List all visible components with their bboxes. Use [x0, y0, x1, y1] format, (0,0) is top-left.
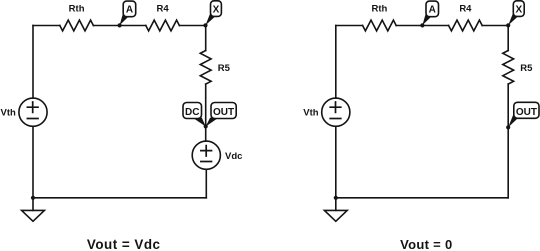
node X junction dot (left) — [203, 23, 207, 27]
node A junction dot (left) — [118, 23, 122, 27]
svg-text:A: A — [429, 5, 436, 16]
wire: R5 down to bottom corner (through OUT node) — [507, 84, 509, 198]
svg-text:X: X — [515, 4, 522, 15]
OUT node junction dot (right) — [506, 125, 510, 129]
wire: R4 to node X (right) — [482, 25, 508, 27]
node X flag (right) — [508, 1, 524, 25]
node X junction dot (right) — [506, 23, 510, 27]
resistor R4 (right) — [449, 20, 483, 31]
svg-text:OUT: OUT — [213, 107, 234, 118]
resistor R5 (right) — [503, 51, 514, 85]
svg-text:Vth: Vth — [1, 107, 17, 118]
svg-text:R5: R5 — [520, 63, 533, 74]
ground stub (left) — [32, 198, 34, 211]
wire: R4 to node X — [179, 25, 205, 27]
ground symbol (left) — [22, 210, 45, 221]
svg-text:Rth: Rth — [69, 4, 85, 15]
svg-text:R4: R4 — [157, 4, 170, 15]
node A junction dot (right) — [420, 23, 424, 27]
wire: node A to R4 (right) — [422, 25, 448, 27]
wire: Vdc bottom to bottom-right corner — [205, 169, 207, 198]
ground stub (right) — [335, 198, 337, 211]
wire: R5 to Vdc top (through DC/OUT node) — [205, 84, 207, 141]
ground node junction dot (right) — [334, 196, 338, 200]
resistor R4 (left) — [146, 20, 180, 31]
wire: node X down to R5 (right) — [507, 26, 509, 51]
svg-text:Rth: Rth — [371, 4, 387, 15]
wire: Rth to node A — [93, 25, 119, 27]
DC/OUT node junction dot (left) — [204, 124, 208, 128]
ground symbol (right) — [324, 210, 347, 221]
svg-text:DC: DC — [185, 107, 199, 118]
node X flag (left) — [206, 1, 222, 25]
ground node junction dot (left) — [31, 196, 35, 200]
svg-text:X: X — [213, 4, 220, 15]
svg-text:Vdc: Vdc — [225, 151, 242, 162]
svg-text:Vout = Vdc: Vout = Vdc — [87, 237, 161, 251]
voltage source Vth (right) — [322, 98, 350, 126]
svg-text:A: A — [126, 5, 133, 16]
wire: node A to R4 — [120, 25, 146, 27]
resistor R5 (left) — [200, 51, 211, 85]
wire: Rth to node A (right) — [396, 25, 422, 27]
wire: Vth bottom to ground node (right) — [335, 126, 337, 198]
svg-text:Vout = 0: Vout = 0 — [400, 237, 452, 251]
wire: top-left corner to Rth (right) — [336, 25, 363, 27]
svg-text:R5: R5 — [218, 63, 231, 74]
wire: Vth bottom to ground node — [32, 126, 34, 198]
resistor Rth (left) — [60, 20, 94, 31]
svg-text:OUT: OUT — [516, 107, 537, 118]
DC flag (left) — [183, 103, 206, 127]
voltage source Vth (left) — [19, 98, 47, 126]
svg-text:R4: R4 — [459, 4, 472, 15]
OUT flag (right) — [508, 102, 539, 127]
wire: bottom of left circuit — [33, 197, 206, 199]
wire: left vertical, top corner to Vth top — [32, 26, 34, 99]
svg-text:Vth: Vth — [303, 107, 319, 118]
wire: bottom of right circuit — [336, 197, 508, 199]
OUT flag (left) — [206, 103, 237, 127]
wire: node X down to R5 — [205, 26, 207, 51]
voltage source Vdc (left) — [192, 141, 220, 169]
wire: top-left corner to Rth — [33, 25, 60, 27]
wire: right circuit left vertical, top corner to Vth top — [335, 26, 337, 99]
node A flag (right) — [422, 1, 438, 25]
node A flag (left) — [120, 1, 136, 25]
resistor Rth (right) — [363, 20, 397, 31]
